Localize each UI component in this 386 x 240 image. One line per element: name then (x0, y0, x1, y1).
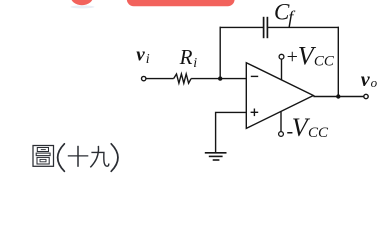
wire junction up to feedback rail (219, 27, 221, 79)
capacitor Cf plates (263, 17, 265, 38)
node vo output terminal (364, 94, 368, 98)
wire top rail right of capacitor (267, 26, 339, 28)
caption glyph 九 (90, 146, 108, 167)
wire input to resistor (146, 78, 173, 80)
wire plus input to ground leg (216, 112, 247, 152)
svg-text:o: o (371, 75, 378, 90)
svg-text:CC: CC (314, 53, 335, 69)
svg-text:i: i (146, 52, 150, 67)
-Vcc pin circle (279, 132, 284, 137)
svg-text:R: R (179, 45, 193, 69)
svg-text:f: f (288, 7, 296, 27)
caption glyph 十 (68, 146, 89, 167)
wire resistor to op-amp minus input (191, 78, 246, 80)
caption glyph 圖 (33, 146, 54, 167)
op-amp U1 triangle (246, 63, 313, 129)
caption text ( ) (58, 144, 65, 172)
svg-text:+: + (287, 46, 298, 68)
+Vcc pin circle (279, 54, 284, 59)
wire top rail left of capacitor (220, 26, 264, 28)
-Vcc pin stem (280, 111, 282, 131)
node junction at output (336, 94, 340, 98)
faint smudge under red ellipse (71, 5, 95, 8)
op-amp plus sign (251, 111, 259, 113)
svg-text:CC: CC (308, 125, 329, 141)
red highlight rounded bar (cut off at top) (127, 0, 235, 6)
node vi input terminal (142, 76, 146, 80)
wire op-amp output to terminal (313, 96, 363, 98)
wire right rail down to output (337, 27, 339, 97)
ground (205, 152, 227, 154)
resistor Ri (174, 74, 192, 83)
op-amp minus sign (251, 75, 258, 77)
+Vcc pin stem (281, 59, 283, 80)
svg-text:i: i (193, 56, 197, 71)
svg-text:v: v (361, 69, 371, 91)
red highlight ellipse (cut off at top) (70, 0, 93, 5)
svg-text:v: v (136, 45, 145, 66)
node junction at inverting input (218, 76, 222, 80)
